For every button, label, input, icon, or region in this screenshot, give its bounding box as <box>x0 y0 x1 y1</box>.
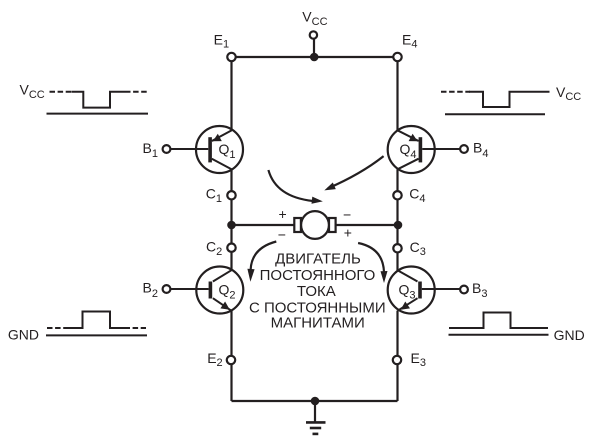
svg-text:МАГНИТАМИ: МАГНИТАМИ <box>271 315 365 332</box>
svg-text:VCC: VCC <box>20 82 45 101</box>
svg-text:VCC: VCC <box>556 84 581 103</box>
svg-text:C2: C2 <box>206 239 222 258</box>
svg-text:GND: GND <box>8 326 39 342</box>
svg-text:−: − <box>343 207 351 223</box>
svg-text:B2: B2 <box>143 280 158 300</box>
svg-text:E4: E4 <box>402 32 417 51</box>
svg-text:+: + <box>279 206 287 222</box>
svg-text:C4: C4 <box>409 186 425 205</box>
svg-text:B3: B3 <box>472 280 487 300</box>
svg-text:VCC: VCC <box>302 9 327 28</box>
svg-text:B1: B1 <box>143 140 158 160</box>
svg-text:E3: E3 <box>411 350 426 369</box>
svg-text:ПОСТОЯННОГО: ПОСТОЯННОГО <box>260 267 376 284</box>
svg-text:−: − <box>278 226 286 242</box>
svg-text:B4: B4 <box>473 140 488 160</box>
svg-text:+: + <box>344 224 352 240</box>
svg-text:ТОКА: ТОКА <box>297 283 336 300</box>
svg-text:E2: E2 <box>207 350 222 369</box>
svg-text:GND: GND <box>554 327 585 343</box>
svg-text:ДВИГАТЕЛЬ: ДВИГАТЕЛЬ <box>275 251 361 268</box>
svg-text:C3: C3 <box>410 239 426 258</box>
svg-text:C1: C1 <box>206 186 222 205</box>
svg-text:E1: E1 <box>214 32 229 51</box>
